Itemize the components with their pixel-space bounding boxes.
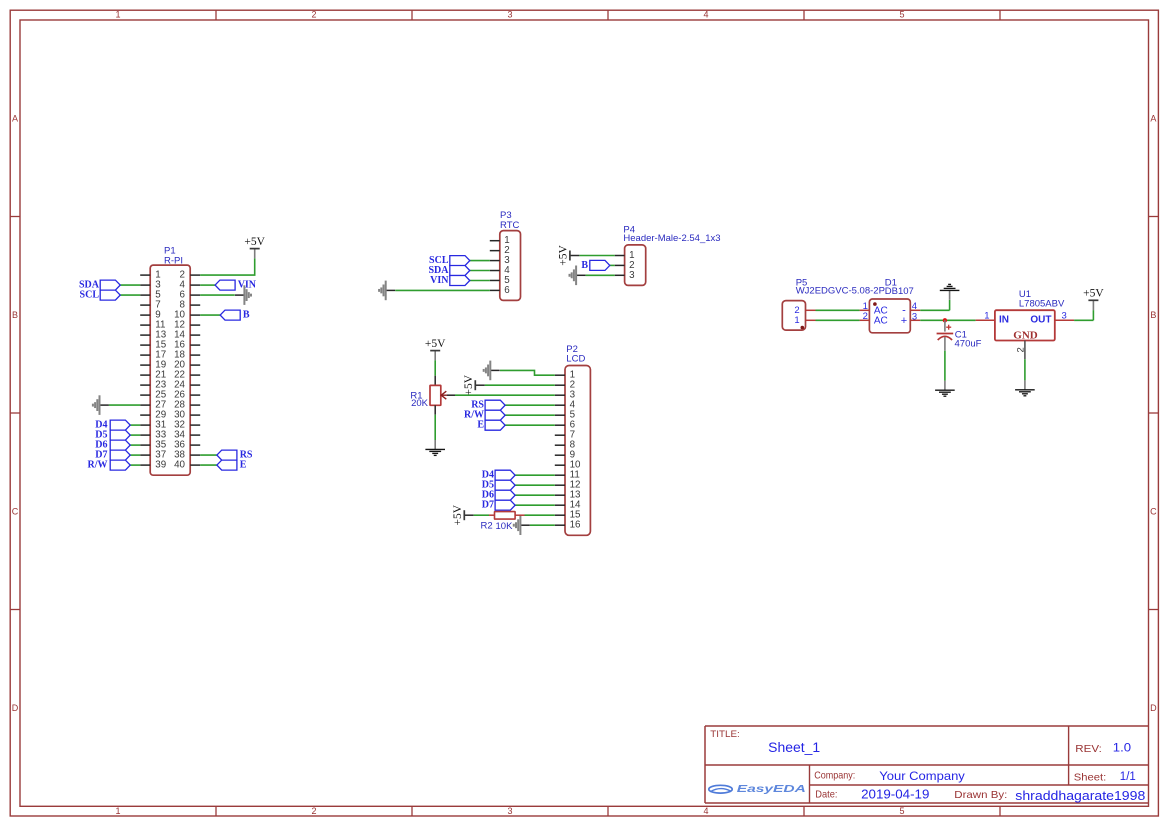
svg-text:OUT: OUT	[1030, 314, 1051, 325]
svg-text:39: 39	[155, 460, 166, 471]
svg-text:1: 1	[115, 10, 120, 20]
svg-text:E: E	[477, 420, 484, 431]
svg-text:16: 16	[570, 520, 581, 531]
svg-text:Company:: Company:	[814, 770, 855, 782]
svg-text:E: E	[240, 460, 247, 471]
svg-text:1: 1	[984, 311, 989, 322]
svg-text:3: 3	[629, 270, 635, 281]
svg-text:+5V: +5V	[425, 338, 446, 350]
svg-text:GND: GND	[1013, 330, 1038, 342]
svg-text:1: 1	[115, 806, 120, 816]
svg-text:D: D	[12, 703, 19, 713]
svg-text:40: 40	[174, 460, 185, 471]
svg-text:4: 4	[703, 10, 708, 20]
svg-text:+5V: +5V	[558, 245, 570, 266]
svg-text:470uF: 470uF	[955, 339, 982, 350]
svg-text:1: 1	[794, 315, 799, 326]
svg-text:Date:: Date:	[815, 789, 837, 801]
svg-text:RTC: RTC	[500, 220, 519, 231]
svg-text:+: +	[901, 315, 907, 327]
svg-text:R2: R2	[481, 521, 493, 532]
svg-text:EasyEDA: EasyEDA	[737, 784, 806, 795]
svg-text:AC: AC	[874, 315, 888, 326]
svg-text:REV:: REV:	[1075, 743, 1102, 755]
svg-text:10K: 10K	[496, 521, 514, 532]
svg-text:Drawn By:: Drawn By:	[954, 789, 1007, 801]
svg-text:shraddhagarate1998: shraddhagarate1998	[1015, 789, 1145, 803]
svg-text:B: B	[243, 310, 250, 321]
svg-text:4: 4	[703, 806, 708, 816]
svg-text:IN: IN	[999, 314, 1009, 325]
svg-text:WJ2EDGVC-5.08-2P: WJ2EDGVC-5.08-2P	[796, 286, 885, 297]
svg-text:1/1: 1/1	[1120, 771, 1136, 783]
svg-text:5: 5	[899, 10, 904, 20]
svg-text:6: 6	[504, 285, 510, 296]
svg-text:+5V: +5V	[452, 504, 464, 525]
svg-text:Header-Male-2.54_1x3: Header-Male-2.54_1x3	[623, 233, 720, 244]
svg-text:TITLE:: TITLE:	[710, 729, 740, 739]
svg-text:A: A	[12, 113, 18, 123]
svg-text:3: 3	[507, 10, 512, 20]
svg-text:1.0: 1.0	[1113, 743, 1131, 755]
svg-text:L7805ABV: L7805ABV	[1019, 299, 1065, 310]
svg-text:Sheet_1: Sheet_1	[768, 740, 820, 755]
svg-text:Sheet:: Sheet:	[1074, 771, 1107, 783]
svg-text:D7: D7	[482, 500, 494, 511]
svg-text:R/W: R/W	[88, 460, 108, 471]
svg-text:2: 2	[311, 10, 316, 20]
svg-text:DB107: DB107	[885, 286, 914, 297]
svg-text:D: D	[1150, 703, 1157, 713]
svg-text:20K: 20K	[411, 398, 429, 409]
svg-text:C: C	[12, 506, 19, 516]
svg-text:B: B	[12, 310, 18, 320]
svg-text:B: B	[1150, 310, 1156, 320]
svg-text:C: C	[1150, 506, 1157, 516]
svg-text:VIN: VIN	[430, 275, 449, 286]
svg-text:+5V: +5V	[463, 374, 475, 395]
svg-text:A: A	[1150, 113, 1156, 123]
svg-text:3: 3	[507, 806, 512, 816]
svg-text:VIN: VIN	[238, 280, 257, 291]
svg-text:2019-04-19: 2019-04-19	[861, 788, 929, 802]
svg-text:+5V: +5V	[244, 236, 265, 248]
svg-text:2: 2	[311, 806, 316, 816]
svg-text:5: 5	[899, 806, 904, 816]
svg-text:+5V: +5V	[1083, 288, 1104, 300]
svg-text:LCD: LCD	[566, 354, 585, 365]
svg-text:Your Company: Your Company	[879, 769, 965, 783]
svg-text:SCL: SCL	[80, 290, 100, 301]
svg-text:B: B	[581, 260, 588, 271]
